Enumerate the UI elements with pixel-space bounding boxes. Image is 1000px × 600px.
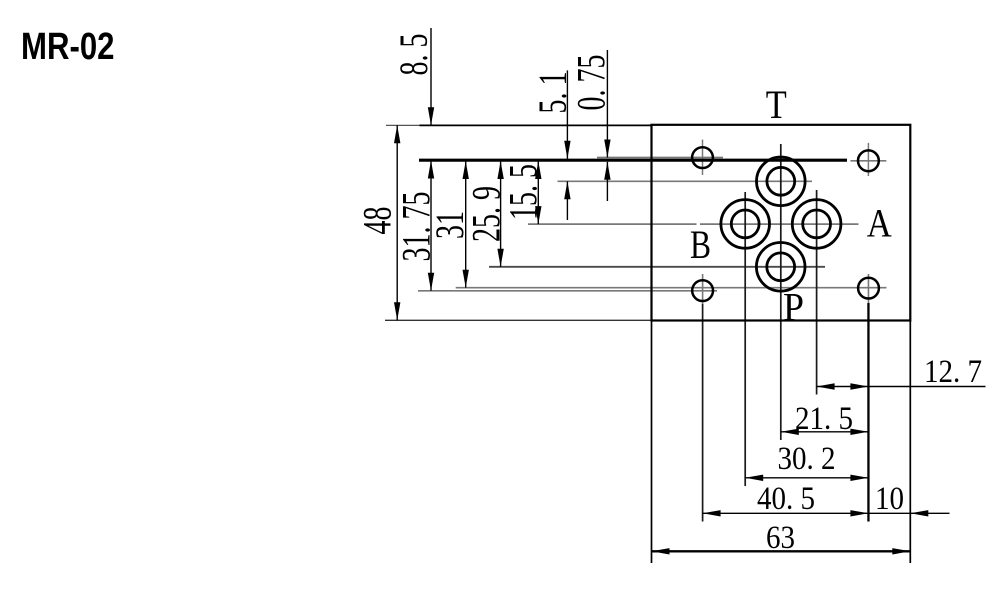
svg-text:5. 1: 5. 1 [531,72,575,114]
svg-text:T: T [766,82,787,127]
svg-text:48: 48 [356,207,400,235]
svg-text:30. 2: 30. 2 [777,439,835,476]
svg-text:A: A [867,201,892,246]
svg-text:P: P [783,285,804,330]
svg-text:8. 5: 8. 5 [392,34,436,76]
svg-text:10: 10 [875,479,904,516]
svg-text:63: 63 [766,518,795,555]
svg-text:40. 5: 40. 5 [757,479,815,516]
svg-text:B: B [690,222,711,267]
svg-text:15. 5: 15. 5 [502,164,546,220]
svg-text:0. 75: 0. 75 [570,55,614,111]
svg-text:12. 7: 12. 7 [924,352,982,389]
svg-text:MR-02: MR-02 [21,26,115,68]
svg-text:21. 5: 21. 5 [795,399,853,436]
